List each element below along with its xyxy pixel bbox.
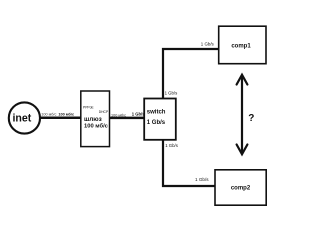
label 100 мб/с (inet end of link) bbox=[41, 112, 56, 116]
label 1 Gb/s (comp1 end of link) bbox=[201, 42, 215, 47]
label 1 Gb/s (comp2 end of link) bbox=[195, 177, 209, 182]
svg-text:comp1: comp1 bbox=[231, 44, 251, 50]
wire switch to comp1 (up then right) bbox=[163, 49, 219, 99]
svg-text:100 мб/с: 100 мб/с bbox=[41, 112, 56, 116]
svg-text:1 Gb/s: 1 Gb/s bbox=[195, 177, 209, 182]
svg-text:шлюз: шлюз bbox=[84, 116, 102, 123]
svg-text:?: ? bbox=[248, 113, 254, 124]
label ? (question between comp1 and comp2) bbox=[248, 113, 254, 124]
svg-text:100 мб/с: 100 мб/с bbox=[84, 122, 109, 129]
wire inet to gateway bbox=[40, 116, 81, 119]
svg-text:PPPoE: PPPoE bbox=[83, 106, 94, 110]
label 100 мб/с (gateway end) bbox=[111, 114, 126, 118]
svg-text:1 Gb/s: 1 Gb/s bbox=[147, 120, 166, 126]
label 1 Gb/s (switch end, bottom link) bbox=[165, 143, 178, 148]
comp1 box bbox=[219, 26, 266, 64]
svg-text:1 Gb/s: 1 Gb/s bbox=[132, 112, 145, 117]
svg-text:switch: switch bbox=[147, 109, 166, 115]
svg-text:100 мб/с: 100 мб/с bbox=[58, 112, 74, 116]
label PPPoE (gateway WAN port) bbox=[83, 106, 94, 110]
label 1 Gb/s (switch end of gateway link) bbox=[132, 112, 145, 117]
switch name text bbox=[147, 109, 166, 126]
wire gateway to switch bbox=[110, 117, 145, 120]
label 1 Gb/s (switch end, top link) bbox=[165, 90, 178, 95]
comp1 name text bbox=[231, 44, 251, 50]
label 100 мб/с (gateway end of link) bbox=[58, 112, 74, 116]
node inet (internet circle) bbox=[9, 102, 40, 133]
comp2 box bbox=[215, 170, 266, 205]
svg-text:DHCP: DHCP bbox=[99, 110, 109, 114]
comp2 name text bbox=[231, 186, 251, 192]
label DHCP (gateway LAN port) bbox=[99, 110, 109, 114]
svg-text:inet: inet bbox=[12, 113, 31, 125]
svg-text:1 Gb/s: 1 Gb/s bbox=[165, 90, 178, 95]
svg-text:comp2: comp2 bbox=[231, 186, 251, 192]
double-headed arrow comp1 to comp2 bbox=[237, 75, 248, 154]
gateway box (шлюз) bbox=[81, 91, 110, 147]
svg-text:1 Gb/s: 1 Gb/s bbox=[201, 42, 215, 47]
gateway name text шлюз 100 мб/с bbox=[84, 116, 109, 129]
svg-text:1 Gb/s: 1 Gb/s bbox=[165, 143, 178, 148]
svg-text:100 мб/с: 100 мб/с bbox=[111, 114, 126, 118]
wire switch to comp2 (down then right) bbox=[163, 140, 215, 186]
switch box bbox=[144, 99, 176, 140]
